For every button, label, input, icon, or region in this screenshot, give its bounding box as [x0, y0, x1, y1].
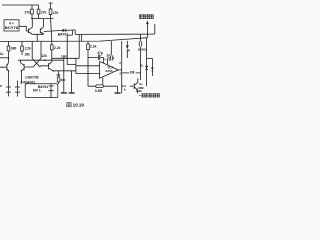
wire long rail B sloping to arrow [0, 22, 147, 41]
label box 4x BCY78 [4, 20, 19, 31]
wire in- node down [87, 74, 89, 87]
wire rail A corner down then right sloping [75, 24, 155, 41]
ground pad x71.5 [69, 92, 75, 93]
wire top supply rail [2, 4, 39, 6]
wire y60 horizontal [18, 59, 64, 61]
wire y58.3 [52, 57, 79, 59]
caption figure number [67, 103, 71, 107]
label bottom right (Chinese) [139, 95, 140, 96]
wire output [118, 69, 122, 71]
svg-text:2.2k: 2.2k [90, 44, 97, 48]
svg-text:2.2k: 2.2k [25, 47, 32, 51]
divider column resistor R8 2.2k [87, 41, 89, 73]
wire x67 link [67, 35, 76, 64]
wire from box to Q1 base [19, 26, 28, 31]
svg-text:Ue: Ue [0, 52, 4, 56]
capacitor C6 in box [50, 84, 52, 98]
diode D2 on x146.6 [145, 66, 148, 69]
op-amp input wires [76, 66, 100, 74]
resistor R1 27k [31, 5, 33, 19]
resistor R5 2.2k [21, 41, 23, 55]
svg-text:680: 680 [11, 46, 17, 50]
svg-text:4 ×: 4 × [9, 21, 14, 25]
wire bottom net y86.2 [88, 85, 118, 87]
transistor Q4 [21, 60, 34, 84]
svg-text:27k: 27k [53, 11, 59, 15]
svg-text:680: 680 [61, 78, 66, 82]
svg-text:MV 1: MV 1 [33, 88, 41, 92]
label top right (Chinese) [139, 14, 142, 19]
resistor R3 27k with supply tick [49, 3, 53, 19]
resistor R6 2.2k (from R3 column) [51, 19, 52, 62]
svg-text:2.2k: 2.2k [54, 46, 61, 50]
wire feedback 1M [122, 72, 141, 74]
resistor R7 3.3M [96, 85, 104, 88]
op-amp top pin stubs [103, 58, 107, 65]
diode D1 BAY61 [62, 29, 65, 32]
svg-text:1k: 1k [126, 48, 130, 52]
svg-text:27k: 27k [41, 10, 47, 14]
wire X to Q5 base [40, 66, 49, 67]
svg-text:12k: 12k [41, 54, 47, 58]
wire bridge to x152.4 [147, 58, 153, 76]
wire Q2 base to diode [44, 31, 61, 32]
wire long vertical output node [121, 41, 123, 94]
wire branch x127 with diode [126, 41, 128, 58]
svg-text:1×BCY58: 1×BCY58 [25, 76, 39, 80]
transistor Q3 [0, 62, 9, 96]
wire emitter tail to long rail [32, 34, 43, 41]
box MV bottom [25, 84, 58, 98]
resistor R4 680 [8, 41, 10, 57]
wire input node y57.8 [0, 57, 9, 59]
svg-text:n: n [0, 84, 2, 88]
emitter arrowheads [31, 33, 33, 35]
wire branch x63.8 to ground [63, 58, 65, 93]
svg-text:10.19: 10.19 [73, 103, 85, 108]
capacitor C5 [17, 81, 19, 97]
svg-text:BAY61: BAY61 [58, 33, 68, 37]
transistor Q5 [49, 62, 54, 72]
svg-text:27k: 27k [24, 11, 30, 15]
svg-text:18k: 18k [24, 53, 30, 57]
transistor Q2 [40, 19, 43, 35]
svg-text:BZX61: BZX61 [138, 47, 147, 51]
ground x117.5 [117, 86, 119, 92]
wire drops from rail B [32, 41, 41, 58]
transistor Q1 [28, 19, 32, 35]
resistor R2 27k [38, 5, 40, 19]
resistor R10 680 below Q5 [58, 71, 60, 84]
svg-text:2.2: 2.2 [56, 73, 60, 77]
svg-text:BCY78: BCY78 [5, 26, 19, 30]
wire branch x72.4 down-left [68, 30, 73, 35]
wire branch x146.6 [146, 38, 148, 86]
wire op-amp bottom pin [102, 78, 104, 86]
wire x75.9 vertical [75, 58, 77, 73]
wire branch x71.5 to ground [71, 71, 73, 93]
transistor Q6 bottom right [130, 78, 138, 93]
svg-text:1M: 1M [130, 70, 135, 74]
node wire joining resistor bottoms [31, 18, 54, 20]
wire X crossing [32, 59, 41, 67]
op-amp U1 TCA335A [100, 61, 119, 78]
resistor R9 column x140.5 [140, 34, 142, 80]
wire x79 vertical [78, 34, 80, 58]
svg-text:335A: 335A [105, 69, 113, 73]
svg-text:3.3M: 3.3M [95, 89, 103, 93]
wire Q5 emitter to op-amp input [54, 70, 76, 72]
ground pad x63.8 [61, 92, 67, 93]
svg-text:1n: 1n [106, 54, 110, 58]
